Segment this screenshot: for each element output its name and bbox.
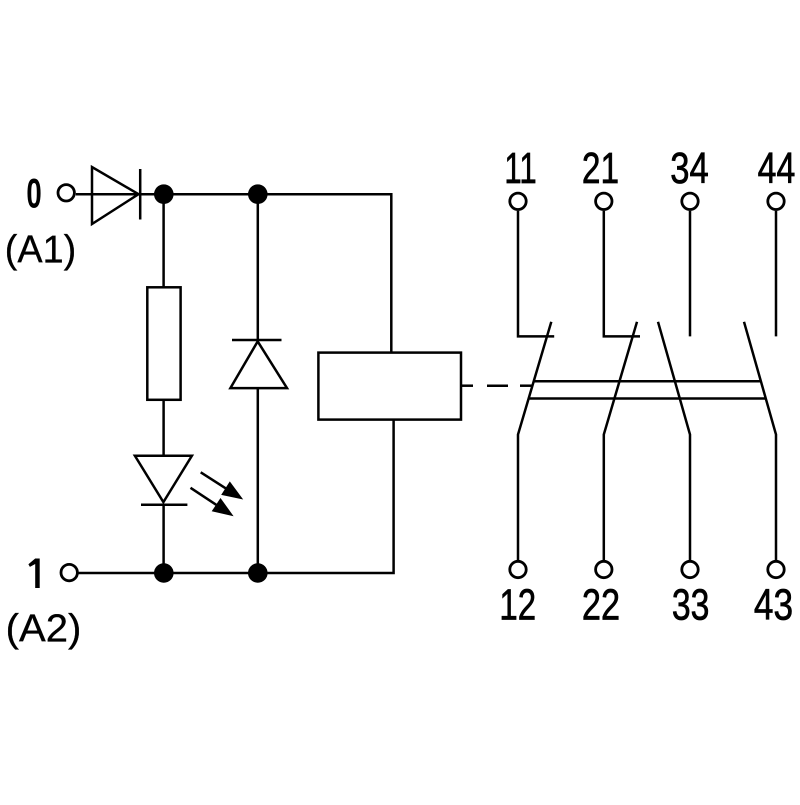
junction node 3 (bottom rail / LED branch) xyxy=(154,563,174,583)
freewheel diode V2 xyxy=(230,340,287,388)
svg-text:22: 22 xyxy=(582,580,620,629)
junction node 1 xyxy=(154,184,174,204)
svg-text:12: 12 xyxy=(499,581,536,630)
wire A1 to node 1 xyxy=(76,193,164,196)
wire node2 to coil top xyxy=(258,194,392,352)
contact 11/12 moving blade xyxy=(518,322,551,560)
wire resistor to LED xyxy=(162,400,165,456)
contact 44 terminal circle xyxy=(768,193,784,209)
terminal circle 0 (A1) xyxy=(58,185,74,201)
LED arrow 2 xyxy=(191,488,219,507)
contact 33 terminal circle xyxy=(682,561,698,577)
svg-text:34: 34 xyxy=(670,144,709,193)
svg-text:(A1): (A1) xyxy=(5,228,76,271)
svg-text:44: 44 xyxy=(758,144,796,193)
svg-text:11: 11 xyxy=(504,145,536,193)
terminal circle 1 (A2) xyxy=(61,564,77,580)
actuator bar top xyxy=(534,380,760,383)
svg-text:(A2): (A2) xyxy=(6,607,82,650)
resistor R1 xyxy=(147,287,180,400)
contact 34 fixed lead xyxy=(689,211,692,337)
actuator bar bottom xyxy=(529,397,765,400)
svg-text:33: 33 xyxy=(672,581,710,629)
contact 22 terminal circle xyxy=(596,561,612,577)
contact 44 fixed lead xyxy=(775,211,778,337)
contact 11 fixed lead xyxy=(518,211,554,337)
LED arrow 1 xyxy=(201,472,229,490)
contact 21/22 moving blade xyxy=(604,322,637,560)
svg-text:43: 43 xyxy=(754,581,793,630)
wire freewheel diode to bottom rail xyxy=(257,388,260,573)
relay coil K1 xyxy=(318,353,461,420)
wire node2 down to freewheel diode xyxy=(257,194,260,341)
contact 11 terminal circle xyxy=(510,193,526,209)
wire coil bottom to bottom rail xyxy=(78,420,393,573)
contact 12 terminal circle xyxy=(510,561,526,577)
svg-text:0: 0 xyxy=(26,170,41,217)
wire node1 down to resistor xyxy=(162,194,165,287)
svg-text:21: 21 xyxy=(582,145,619,193)
contact 43 terminal circle xyxy=(768,561,784,577)
junction node 4 (bottom rail / freewheel branch) xyxy=(248,563,268,583)
contact 44/43 moving blade xyxy=(744,322,776,560)
dashed mechanical link from coil xyxy=(461,384,533,387)
LED indicator diode xyxy=(135,456,192,505)
contact 34 terminal circle xyxy=(682,193,698,209)
terminal label 1 xyxy=(28,559,39,589)
contact 21 fixed lead xyxy=(604,211,640,337)
contact 34/33 moving blade xyxy=(658,322,690,560)
junction node 2 xyxy=(248,184,268,204)
diode V1 series polarity diode xyxy=(92,167,140,224)
contact 21 terminal circle xyxy=(596,193,612,209)
wire node1 to node2 xyxy=(164,193,258,196)
wire LED to bottom rail xyxy=(162,505,165,573)
